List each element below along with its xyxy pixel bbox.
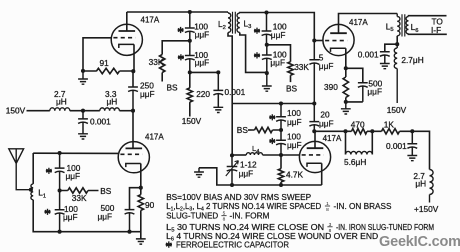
node varcap bottom <box>230 183 234 187</box>
asterisk stack1 lower <box>178 54 184 60</box>
inductor L3 <box>237 13 240 33</box>
node cathode V3 <box>344 66 348 70</box>
capacitor 5uuF <box>309 41 319 104</box>
resistor 4.7K <box>278 155 283 185</box>
wire rail3 down to L4 <box>231 104 233 156</box>
node 4.7K bottom <box>279 183 283 187</box>
capacitor 250uuF <box>128 87 138 111</box>
wire cathode V4 down <box>321 163 323 185</box>
wire to 2.7uH right <box>412 131 429 169</box>
inductor 2.7uH choke left <box>50 108 70 111</box>
svg-text:μμF: μμF <box>140 89 155 99</box>
svg-text:μH: μH <box>107 96 118 106</box>
svg-text:BS: BS <box>167 83 179 93</box>
capacitor 20uuF <box>309 104 319 132</box>
resistor 220 <box>187 72 192 116</box>
inductor L4 <box>246 153 262 155</box>
wire cathode bus stage3 <box>232 184 322 186</box>
wire to 0.001 plate bypass <box>385 44 397 52</box>
svg-text:BS: BS <box>286 83 298 93</box>
svg-text:91: 91 <box>100 58 110 68</box>
fraction 1/8 <box>325 201 330 213</box>
wire L4 to grid node <box>263 154 282 156</box>
ground below 90 <box>136 239 146 244</box>
svg-text:8: 8 <box>326 207 329 213</box>
capacitor variable 1-12uuF <box>227 155 238 185</box>
node grid-ground V2 <box>81 69 85 73</box>
svg-text:0.001: 0.001 <box>358 50 379 60</box>
svg-text:0.001: 0.001 <box>90 116 111 126</box>
resistor 470 <box>346 129 373 134</box>
wire cathode V2 down <box>132 44 135 71</box>
wire grid V3 <box>314 40 323 42</box>
svg-text:417A: 417A <box>145 132 164 141</box>
svg-text:μμF: μμF <box>63 212 78 222</box>
svg-text:μμF: μμF <box>319 61 334 71</box>
node 390 bottom <box>344 100 348 104</box>
node decoupling rail B <box>216 70 220 74</box>
svg-text:μμF: μμF <box>195 29 210 39</box>
wire 250uuF top <box>132 71 134 87</box>
node L4 left <box>230 153 234 157</box>
ground 0.001 rail <box>78 134 88 139</box>
ground 0.001 right <box>407 156 417 161</box>
inductor L5 <box>397 14 400 36</box>
svg-text:-IN. FORM: -IN. FORM <box>230 211 270 221</box>
wire choke to plate node <box>119 110 133 112</box>
asterisk bias upper <box>269 114 275 120</box>
svg-text:417A: 417A <box>349 18 368 27</box>
svg-text:μH: μH <box>56 96 67 106</box>
wire stack1 mid to 33K <box>162 41 190 55</box>
svg-text:33K: 33K <box>72 193 87 203</box>
svg-text:I-F: I-F <box>431 25 441 35</box>
svg-text:μμF: μμF <box>195 58 210 68</box>
svg-text:390: 390 <box>324 82 338 92</box>
capacitor 500uuF stage1 <box>125 210 135 232</box>
wire peaking left down <box>345 131 347 154</box>
dash BS stage3 <box>248 129 252 131</box>
node plate V4 <box>312 129 316 133</box>
wire bottom bus stage1 <box>60 231 141 233</box>
wire tank left bottom <box>33 200 59 232</box>
asterisk stack2 lower <box>254 52 260 58</box>
asterisk (ferroelectric) tank upper <box>46 168 52 174</box>
wire decoupling rail <box>190 71 219 73</box>
capacitor 0.001 right <box>407 131 417 155</box>
inductor 3.3uH choke <box>100 108 120 111</box>
wire plate V4 to peaking <box>314 130 345 132</box>
wire L6 bottom to IF <box>409 33 447 36</box>
svg-text:μH: μH <box>415 179 426 189</box>
capacitor 0.001 plate V3 <box>380 52 390 64</box>
svg-text:μμF: μμF <box>367 86 382 96</box>
svg-text:μμF: μμF <box>98 212 113 222</box>
svg-text:2.7μH: 2.7μH <box>401 55 423 65</box>
capacitor 100uuF stack2 lower <box>262 45 272 73</box>
cathode V1 <box>126 164 141 168</box>
svg-text:μμF: μμF <box>66 171 81 181</box>
node tank bottom/bus <box>58 230 62 234</box>
triode V2 417A (cascode upper) <box>111 24 142 55</box>
svg-text:μμF: μμF <box>270 57 285 67</box>
node peaking left <box>343 129 347 133</box>
wire L3 bottom <box>240 33 267 73</box>
wire grid V2 to ground node <box>83 38 111 71</box>
cathode V2 <box>119 44 134 48</box>
fraction 5/8 <box>221 211 226 223</box>
node L5/choke junction <box>395 42 399 46</box>
wire plate V2 up <box>126 12 128 31</box>
node cathode V1 <box>139 186 143 190</box>
svg-text:SLUG-TUNED: SLUG-TUNED <box>166 211 218 221</box>
svg-text:417A: 417A <box>141 16 160 25</box>
triode V4 417A (3rd stage) <box>299 141 330 172</box>
wire 150V lead <box>27 110 50 112</box>
svg-text:μμF: μμF <box>319 118 334 128</box>
inductor L2 <box>228 12 231 33</box>
wire plate V3 up <box>339 14 398 34</box>
resistor 33K stage2 <box>288 62 293 82</box>
capacitor 0.001 stage1 bypass <box>213 72 223 107</box>
triode V3 417A (2nd stage) <box>323 24 354 55</box>
svg-text:0.001: 0.001 <box>386 141 407 151</box>
capacitor 100uuF stack2 upper <box>262 13 272 45</box>
ground 0.001 plate V3 <box>380 64 390 69</box>
inductor L1 <box>31 184 33 200</box>
svg-text:FERROELECTRIC CAPACITOR: FERROELECTRIC CAPACITOR <box>176 239 289 249</box>
node BS mid stage3 <box>279 128 283 132</box>
svg-text:150V: 150V <box>6 106 26 116</box>
svg-text:0.001: 0.001 <box>225 87 246 97</box>
cathode V4 <box>307 163 322 167</box>
inductor 5.6uH <box>346 151 373 154</box>
wire grid bus V4 <box>232 154 246 156</box>
svg-text:90: 90 <box>145 200 155 210</box>
svg-text:-IN. ON BRASS: -IN. ON BRASS <box>334 201 392 211</box>
node stack2 bottom <box>265 71 269 75</box>
wire cathode V1 down <box>140 164 142 188</box>
triode V1 417A (input) <box>118 142 149 173</box>
wire rail3 <box>232 103 314 105</box>
wire L6 top to IF <box>409 15 447 18</box>
wire peaking right down <box>371 131 373 154</box>
resistor 33K bias V2 <box>160 55 165 82</box>
wire L2 bottom down <box>228 33 232 104</box>
node rail2 cap stack <box>264 10 268 14</box>
resistor 1K <box>372 129 412 134</box>
fraction 3/8 <box>327 222 332 234</box>
capacitor 100uuF stack1 upper <box>185 12 195 41</box>
wire cathode V3 down <box>345 48 347 68</box>
node rail/100uuF stack <box>188 10 192 14</box>
node tank mid <box>58 188 62 192</box>
wire L5 bottom down <box>396 36 398 44</box>
wire ground hook stage3 <box>199 168 232 185</box>
core L2/L3 <box>233 12 236 34</box>
wire plate V4 up <box>314 131 316 148</box>
svg-text:150V: 150V <box>182 116 202 126</box>
inductor 2.7uH choke V3 <box>394 44 397 103</box>
resistor 33K stage1 <box>60 188 99 193</box>
capacitor 100uuF bias upper <box>276 104 286 131</box>
wire 500uuF bottom <box>346 101 363 103</box>
svg-text:μμF: μμF <box>287 117 302 127</box>
capacitor 0.001 rail bypass <box>78 111 88 134</box>
wire top rail stage1 <box>127 11 228 13</box>
svg-text:33K: 33K <box>149 57 164 67</box>
node grid/tank junction <box>58 151 62 155</box>
svg-text:GeekIC.com: GeekIC.com <box>379 234 460 250</box>
node peaking right <box>370 129 374 133</box>
antenna <box>9 149 31 190</box>
wire between chokes <box>70 110 100 112</box>
node antenna tap on L1 <box>29 188 33 192</box>
wire rail2 <box>267 13 315 41</box>
arrow variable cap <box>226 161 239 176</box>
node rail3 end <box>312 101 316 105</box>
wire grid bus stage1 <box>33 152 119 154</box>
asterisk bias lower <box>269 138 275 144</box>
resistor 390 <box>343 68 348 102</box>
capacitor 500uuF stage2 <box>358 83 368 102</box>
ground 0.001 stage1 <box>213 107 223 112</box>
capacitor 100uuF tank upper <box>55 153 65 191</box>
node 500uuF bottom on bus <box>127 230 131 234</box>
node cathode V2top <box>131 69 135 73</box>
inductor 2.7uH right <box>430 170 434 203</box>
node decoupling rail A <box>188 70 192 74</box>
capacitor 100uuF stack1 lower <box>185 41 195 73</box>
node stack2 mid <box>265 43 269 47</box>
node grid V4 <box>279 153 283 157</box>
svg-text:5.6μH: 5.6μH <box>344 157 366 167</box>
svg-text:470: 470 <box>351 119 365 129</box>
wire stack2 mid to 33K <box>267 45 291 62</box>
node grid V3 <box>312 38 316 42</box>
wire tank left top <box>32 153 34 184</box>
capacitor 100uuF tank lower <box>55 191 65 232</box>
svg-text:BS: BS <box>237 125 249 135</box>
wire to 500uuF <box>130 188 141 210</box>
wire grid V4 into tube <box>281 154 299 156</box>
node plate V1 / rail <box>131 109 135 113</box>
svg-text:μμF: μμF <box>271 30 286 40</box>
resistor 91 <box>83 68 133 73</box>
node stack1 mid <box>188 39 192 43</box>
svg-text:4.7K: 4.7K <box>286 170 304 180</box>
node chokes junction <box>81 109 85 113</box>
wire plate V1 up <box>132 111 134 149</box>
node rail3 cap5 <box>279 101 283 105</box>
cathode V3 <box>331 48 346 52</box>
ground grid V2 <box>78 71 88 84</box>
svg-text:417A: 417A <box>323 134 342 143</box>
svg-text:+150V: +150V <box>414 204 439 214</box>
asterisk stack2 upper <box>254 28 260 34</box>
ground stack2 <box>262 73 272 91</box>
resistor 90 cathode <box>138 188 143 239</box>
core L5/L6 <box>402 14 405 36</box>
inductor L6 <box>406 17 408 34</box>
svg-text:1K: 1K <box>384 119 395 129</box>
resistor BS feed stage3 <box>252 127 282 132</box>
ground 390 <box>341 102 351 114</box>
asterisk tank lower <box>44 209 50 215</box>
svg-text:μμF: μμF <box>239 168 254 178</box>
wire L3 top to rail2 <box>240 12 267 15</box>
ground stage3 <box>194 168 204 177</box>
asterisk note line 6 <box>166 241 172 247</box>
node 1K/0.001 <box>410 129 414 133</box>
svg-text:BS: BS <box>100 186 112 196</box>
svg-text:μμF: μμF <box>287 140 302 150</box>
svg-text:33K: 33K <box>294 62 309 72</box>
capacitor 100uuF bias lower <box>276 130 286 155</box>
wire to 500uuF top <box>346 68 363 83</box>
svg-text:150V: 150V <box>387 105 407 115</box>
svg-text:220: 220 <box>196 89 210 99</box>
asterisk stack1 upper <box>178 27 184 33</box>
